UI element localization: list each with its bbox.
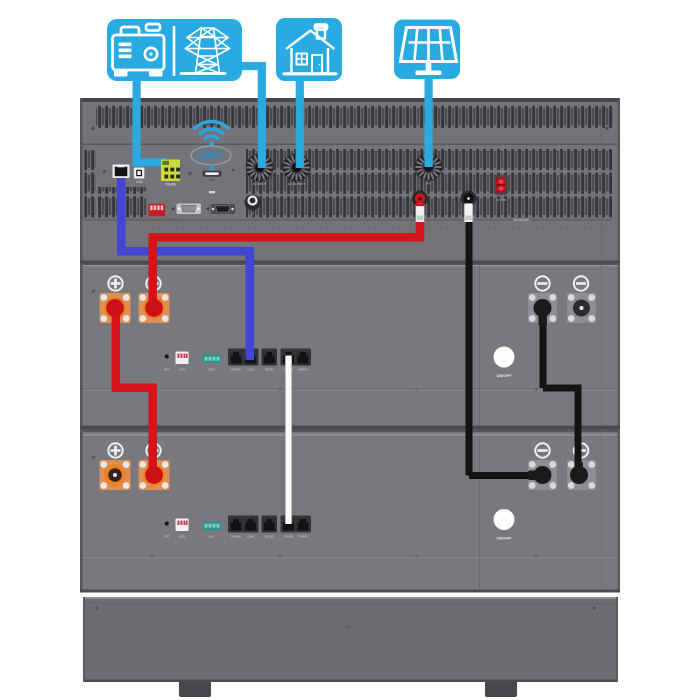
svg-text:DRY: DRY [208, 368, 214, 372]
inverter vent row top [96, 105, 613, 129]
RJ45 RS232 [262, 349, 278, 372]
RJ45 group RS485 RS485 [281, 349, 312, 372]
house icon box [276, 18, 342, 81]
wifi text bubble [191, 146, 231, 171]
red wire BAT+ to battery1 [153, 222, 425, 308]
face screw [92, 456, 95, 459]
serial label right [513, 219, 529, 221]
svg-text:RS485: RS485 [231, 368, 241, 372]
DIP switch red [136, 204, 179, 222]
svg-text:AC INPUT: AC INPUT [252, 182, 266, 186]
negative terminal B1T4 [567, 293, 596, 323]
inverter vent field right [246, 148, 612, 219]
plus symbol terminal 2 [146, 276, 160, 290]
cyan wire grid box to AC INPUT [241, 66, 262, 168]
DB9 connector dark [209, 191, 235, 214]
generator icon [113, 24, 165, 77]
ADD dip switch [176, 519, 189, 539]
svg-text:RS485: RS485 [298, 368, 308, 372]
RJ45 group RS485 CAN [228, 516, 259, 539]
RJ45 group RS485 CAN [228, 349, 259, 372]
svg-text:RS232: RS232 [265, 368, 275, 372]
negative terminal B2T3 [528, 460, 557, 490]
AC OUTPUT circular gland [283, 154, 311, 186]
panel seam [479, 436, 480, 590]
black wire battery1 to battery2 negative [543, 322, 578, 470]
arrow marks [171, 207, 175, 211]
plus symbol terminal 2 [146, 443, 160, 457]
svg-text:WiFi: WiFi [199, 151, 222, 163]
separator line [173, 26, 176, 76]
svg-text:CAN: CAN [247, 535, 253, 539]
RJ45 group RS485 RS485 [281, 516, 312, 539]
plus symbol terminal 1 [108, 276, 122, 290]
positive terminal B2T2 [139, 460, 170, 490]
RJ45 RS232 [262, 516, 278, 539]
blue comm wire ethernet to CAN port [121, 178, 250, 360]
svg-text:I ON: I ON [498, 169, 504, 173]
generator and grid icon box [107, 19, 242, 81]
wifi antenna connector [203, 171, 222, 182]
DC breaker switch [494, 169, 508, 202]
face screw [92, 289, 95, 292]
flange tick marks [150, 387, 538, 391]
base pedestal [83, 597, 618, 682]
battery 2 [92, 436, 596, 590]
svg-text:O OFF: O OFF [497, 198, 507, 202]
foot right [485, 682, 517, 697]
black plug on B2T4 [570, 462, 588, 484]
cyan wire house to AC OUTPUT [296, 81, 304, 168]
svg-text:RS485: RS485 [165, 183, 175, 187]
svg-text:RST: RST [164, 368, 170, 372]
svg-text:ON/OFF: ON/OFF [496, 373, 512, 378]
cyan wire generator to RS485 block [133, 80, 166, 162]
negative terminal B1T3 [528, 293, 557, 323]
battery minus output connector [461, 191, 477, 228]
ON/OFF button [494, 347, 515, 379]
house icon [284, 25, 336, 74]
DRY contact connector [203, 355, 222, 372]
svg-text:CT: CT [251, 212, 255, 216]
AC INPUT circular gland [246, 154, 274, 186]
svg-text:RS485: RS485 [231, 535, 241, 539]
DB9 connector light [177, 204, 202, 215]
svg-text:RST: RST [164, 535, 170, 539]
svg-text:CAN: CAN [247, 368, 253, 372]
red wire battery1 to battery2 [112, 308, 153, 475]
svg-text:RS485: RS485 [298, 535, 308, 539]
svg-text:RS485: RS485 [284, 535, 294, 539]
plus symbol terminal 1 [108, 443, 122, 457]
inverter bottom tick line [84, 219, 612, 220]
svg-text:ADD: ADD [179, 368, 186, 372]
svg-text:DRY: DRY [208, 535, 214, 539]
minus symbol right terminal 1 [535, 443, 549, 457]
inverter mid divider line [83, 144, 619, 146]
svg-text:PV: PV [426, 182, 430, 186]
battery plus output connector [412, 191, 428, 228]
flange tick marks [150, 554, 538, 558]
svg-text:ADD: ADD [179, 535, 186, 539]
ethernet port RJ45 [113, 165, 130, 185]
inverter vent block left edge [85, 150, 96, 218]
negative terminal B2T4 [567, 460, 596, 490]
panel seam [479, 266, 480, 426]
svg-text:RS232: RS232 [265, 535, 275, 539]
PV circular gland [415, 153, 443, 185]
inverter vent block lower left [98, 187, 147, 219]
screw dots on inverter [91, 127, 94, 130]
solar panel icon [401, 28, 457, 76]
minus symbol right terminal 2 [574, 443, 588, 457]
minus symbol right terminal 1 [535, 276, 549, 290]
power grid tower icon [181, 28, 230, 74]
svg-text:PARALLEL MODULE CONNECTION: PARALLEL MODULE CONNECTION [136, 217, 179, 221]
battery module 1 body [80, 263, 620, 429]
positive terminal B1T1 [100, 293, 131, 323]
battery module 2 body [80, 429, 620, 597]
minus symbol right terminal 2 [574, 276, 588, 290]
inverter cabinet body [80, 98, 620, 263]
red circle caps on terminals [145, 299, 163, 317]
svg-text:USB: USB [136, 180, 143, 184]
svg-text:ANT: ANT [209, 178, 215, 182]
ADD dip switch [176, 352, 189, 372]
cyan wire solar to PV [425, 79, 433, 167]
foot left [179, 682, 211, 697]
positive terminal B2T1 unconnected [100, 460, 131, 490]
black wire BAT- to battery2 left negative [469, 222, 538, 476]
RST button [165, 355, 169, 359]
black plug on B2T3 [528, 466, 552, 484]
wifi antenna symbol [195, 122, 228, 146]
white comm wire battery1 to battery2 [285, 356, 292, 525]
RS485 green terminal block [161, 160, 180, 187]
DRY contact connector [203, 522, 222, 539]
CT round connector [245, 195, 261, 216]
black plug on B1T3 [534, 299, 552, 326]
RST button [165, 522, 169, 526]
svg-text:ON/OFF: ON/OFF [496, 536, 512, 541]
solar panel icon box [394, 20, 460, 80]
USB port [134, 168, 145, 185]
svg-text:AC OUTPUT: AC OUTPUT [288, 182, 306, 186]
ON/OFF button [494, 509, 515, 541]
battery 1 [92, 266, 596, 426]
positive terminal B1T2 [139, 293, 170, 323]
